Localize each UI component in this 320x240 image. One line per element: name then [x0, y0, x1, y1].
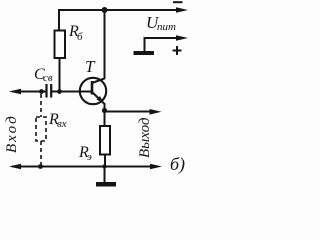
svg-text:б): б)	[170, 154, 185, 175]
svg-text:св: св	[43, 72, 53, 84]
svg-text:Выход: Выход	[137, 117, 153, 158]
svg-text:T: T	[85, 57, 96, 76]
svg-text:вх: вх	[57, 118, 67, 130]
svg-text:б: б	[77, 31, 83, 43]
svg-text:пит: пит	[157, 21, 176, 33]
svg-text:Вход: Вход	[4, 114, 20, 153]
svg-text:э: э	[87, 151, 92, 163]
